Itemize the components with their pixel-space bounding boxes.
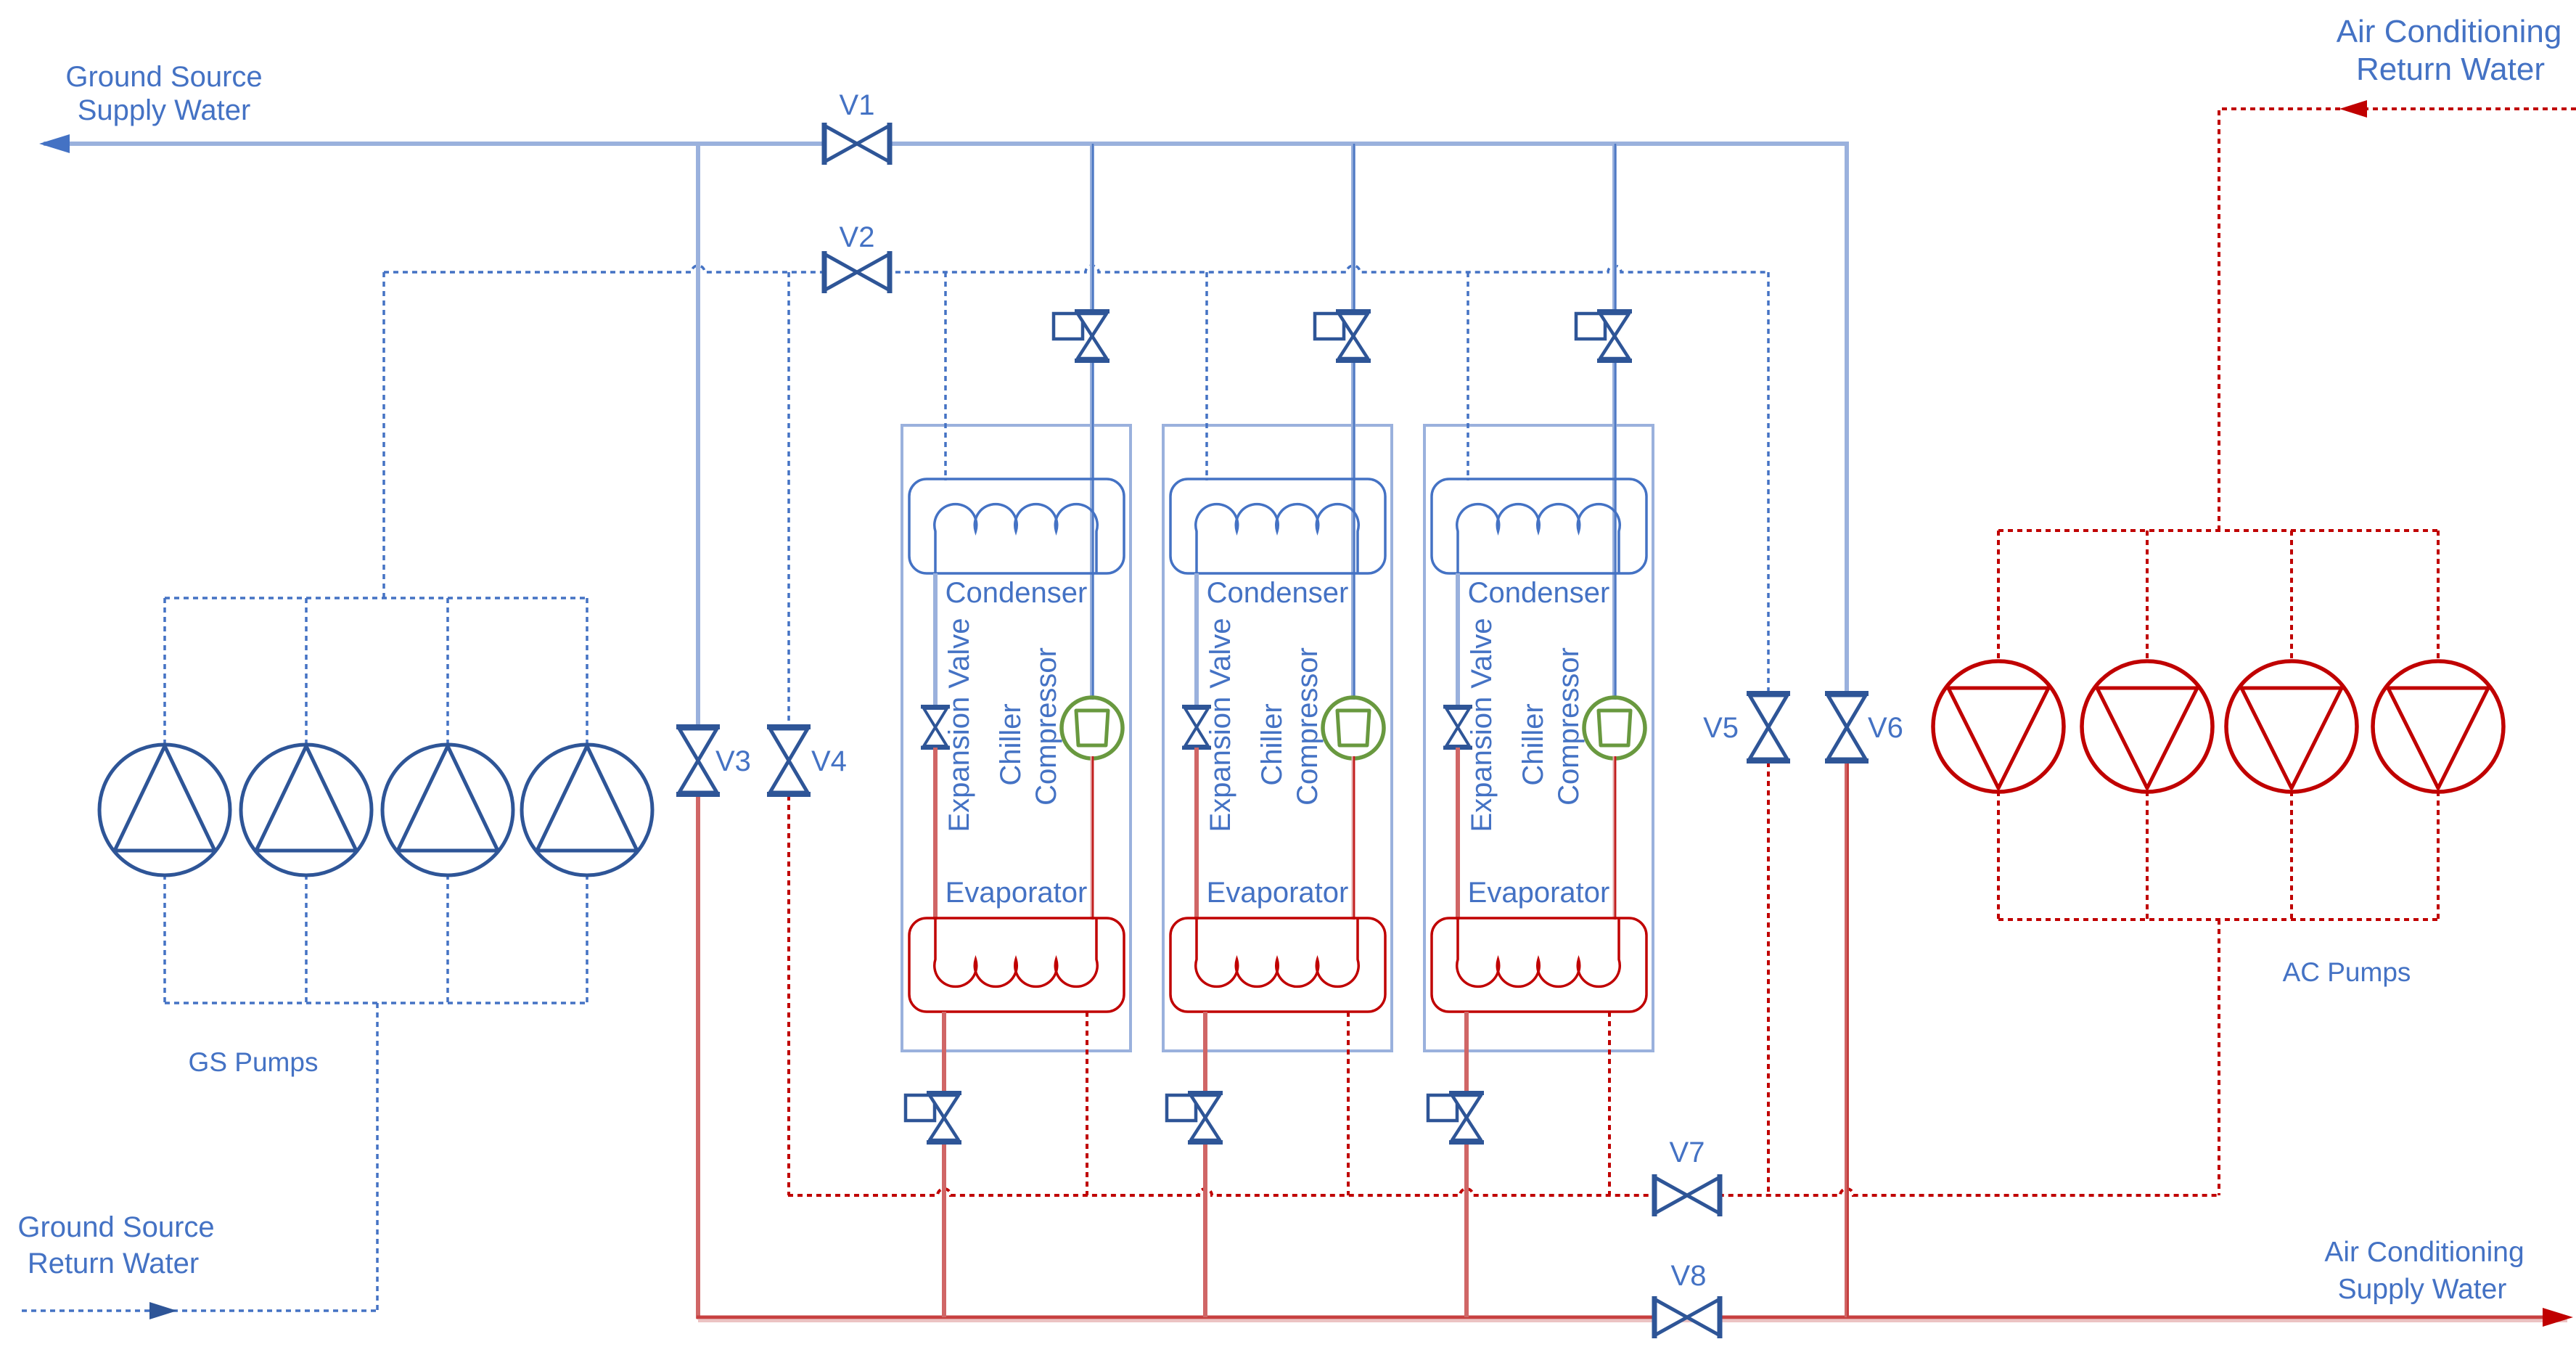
wire: chiller 2 condenser supply riser (solid blue)	[1351, 144, 1355, 700]
wire: V5 drop to V7 header (dashed red)	[1767, 762, 1770, 1195]
arrow: ground source return flow (right)	[149, 1302, 177, 1319]
expansion valve chiller 3	[1443, 705, 1472, 750]
wire: AC pump 3 discharge stub (dashed red)	[2290, 791, 2293, 920]
pump AC4 (air conditioning pump)	[2373, 661, 2503, 792]
chiller 3 enclosure	[1424, 425, 1653, 1051]
wire: air conditioning return water (dashed red)	[2219, 109, 2576, 531]
wire: V7 bypass header (dashed red) with line hops	[788, 1189, 2219, 1195]
wire: air conditioning supply water shadow line	[698, 1319, 2567, 1322]
wire: AC pump 4 discharge stub (dashed red)	[2437, 791, 2440, 920]
svg-text:Ground Source: Ground Source	[65, 61, 262, 93]
arrow: air conditioning return flow (left)	[2339, 100, 2367, 118]
wire: ground source supply water header (solid blue)	[44, 144, 1847, 691]
condenser coil chiller 1	[935, 504, 1098, 573]
svg-text:V2: V2	[840, 221, 875, 253]
svg-text:Return Water: Return Water	[2356, 52, 2545, 87]
wire: chiller 1 compressor discharge core	[1092, 756, 1094, 920]
wire: AC pump 1 suction stub (dashed red)	[1997, 531, 2000, 662]
valve V5	[1747, 691, 1790, 764]
svg-text:Condenser: Condenser	[1468, 577, 1610, 609]
pump AC1 (air conditioning pump)	[1933, 661, 2064, 792]
wire: V6 drop core line	[1847, 762, 1849, 1317]
evaporator shell chiller 3	[1432, 918, 1646, 1012]
condenser shell chiller 1	[909, 479, 1124, 573]
wire: V2 bypass header (dashed blue) with line hops	[384, 266, 1768, 272]
wire: chiller 2 evaporator supply outlet (solid red)	[1203, 1012, 1207, 1317]
svg-text:V4: V4	[811, 745, 847, 777]
wire: AC pump manifold top (dashed red)	[1998, 529, 2438, 532]
wire: chiller 3 expansion valve outlet to evaporator (red)	[1456, 748, 1460, 920]
pump AC3 (air conditioning pump)	[2226, 661, 2357, 792]
motor valve chiller 3 condenser inlet	[1576, 309, 1632, 363]
condenser coil chiller 2	[1196, 504, 1358, 573]
svg-text:Chiller: Chiller	[1256, 703, 1288, 785]
wire: AC pump 3 suction stub (dashed red)	[2290, 531, 2293, 662]
motor valve chiller 1 condenser inlet	[1054, 309, 1109, 363]
svg-text:V7: V7	[1670, 1137, 1705, 1168]
wire: riser from V2 header down to GS pump manifold (dashed blue)	[382, 272, 385, 598]
arrow: air conditioning supply flow (right)	[2543, 1308, 2573, 1327]
svg-text:Chiller: Chiller	[995, 703, 1027, 785]
svg-text:V8: V8	[1671, 1260, 1707, 1292]
chiller 2 enclosure	[1163, 425, 1392, 1051]
svg-text:Air Conditioning: Air Conditioning	[2324, 1237, 2524, 1268]
expansion valve chiller 2	[1182, 705, 1211, 750]
valve V4	[767, 724, 811, 797]
svg-text:Ground Source: Ground Source	[17, 1211, 214, 1243]
wire: V5 riser from V2 header (dashed blue)	[1767, 272, 1770, 692]
wire: chiller 1 compressor discharge to evaporator (red)	[1091, 756, 1094, 920]
svg-text:Chiller: Chiller	[1517, 703, 1549, 785]
svg-text:Air Conditioning: Air Conditioning	[2337, 14, 2562, 49]
evaporator coil chiller 2	[1196, 918, 1358, 986]
wire: AC pump 1 discharge stub (dashed red)	[1997, 791, 2000, 920]
wire: chiller 2 compressor discharge core	[1353, 756, 1355, 920]
svg-text:AC Pumps: AC Pumps	[2283, 957, 2411, 987]
compressor chiller 2 (green)	[1323, 697, 1384, 758]
svg-text:V3: V3	[715, 745, 751, 777]
wire: chiller 3 compressor discharge core	[1615, 756, 1617, 920]
evaporator coil chiller 1	[935, 918, 1098, 986]
wire: GS pump 4 suction stub (dashed blue)	[586, 598, 588, 745]
wire: chiller 2 riser core line	[1353, 144, 1355, 700]
wire: chiller 3 compressor discharge to evaporator (red)	[1613, 756, 1617, 920]
svg-text:GS Pumps: GS Pumps	[189, 1047, 319, 1077]
pump GS2 (ground source pump)	[241, 745, 372, 875]
svg-text:Supply Water: Supply Water	[78, 94, 251, 126]
valve V6	[1825, 691, 1869, 764]
svg-text:Expansion Valve: Expansion Valve	[1205, 618, 1236, 832]
svg-text:Compressor: Compressor	[1292, 647, 1324, 806]
compressor chiller 3 (green)	[1584, 697, 1645, 758]
svg-text:Evaporator: Evaporator	[946, 877, 1088, 909]
evaporator coil chiller 3	[1457, 918, 1620, 986]
evaporator shell chiller 1	[909, 918, 1124, 1012]
wire: chiller 1 expansion valve outlet to evaporator (red)	[933, 748, 938, 920]
svg-text:Condenser: Condenser	[1207, 577, 1349, 609]
valve V1 (gate valve on GS supply header)	[822, 123, 893, 165]
wire: chiller 3 riser core line	[1615, 144, 1617, 700]
wire: AC pump 4 suction stub (dashed red)	[2437, 531, 2440, 662]
wire: chiller 2 condenser bypass inlet (dashed blue)	[1205, 272, 1208, 480]
svg-text:Return Water: Return Water	[28, 1248, 199, 1280]
pump GS1 (ground source pump)	[99, 745, 230, 875]
wire: V4 riser from V2 header (dashed blue)	[787, 272, 790, 726]
pump AC2 (air conditioning pump)	[2082, 661, 2212, 792]
wire: air conditioning supply water header (solid red)	[696, 797, 700, 1319]
wire: chiller 1 evaporator supply outlet (solid red)	[942, 1012, 946, 1317]
motor valve chiller 3 evaporator outlet	[1428, 1091, 1484, 1145]
wire: AC pump manifold drop to V7 header (dashed red)	[2218, 920, 2220, 1195]
wire: ground source return water (dashed blue)	[22, 1308, 377, 1311]
pump GS4 (ground source pump)	[522, 745, 652, 875]
svg-text:Expansion Valve: Expansion Valve	[943, 618, 975, 832]
wire: AC pump 2 discharge stub (dashed red)	[2146, 791, 2149, 920]
valve V3	[676, 724, 720, 797]
condenser shell chiller 2	[1170, 479, 1385, 573]
svg-text:Compressor: Compressor	[1553, 647, 1585, 806]
svg-text:Expansion Valve: Expansion Valve	[1466, 618, 1498, 832]
wire: chiller 3 liquid line to expansion valve (blue)	[1456, 573, 1460, 707]
pump GS3 (ground source pump)	[382, 745, 513, 875]
wire: GS pump manifold top (dashed blue)	[165, 597, 587, 599]
wire: AC pump manifold bottom (dashed red)	[1998, 918, 2438, 921]
compressor chiller 1 (green)	[1062, 697, 1123, 758]
wire: chiller 2 expansion valve outlet to evaporator (red)	[1194, 748, 1199, 920]
wire: AC supply header horizontal run	[697, 1316, 2567, 1319]
valve V7 (on dashed red bypass)	[1652, 1174, 1723, 1216]
wire: chiller 1 liquid line to expansion valve (blue)	[933, 573, 938, 707]
wire: GS pump 1 discharge stub (dashed blue)	[163, 875, 166, 1003]
wire: GS pump 2 discharge stub (dashed blue)	[305, 875, 308, 1003]
wire: V3 riser from GS supply header (solid blue)	[696, 144, 700, 726]
wire: GS pump 1 suction stub (dashed blue)	[163, 598, 166, 745]
arrow: ground source supply flow (left)	[39, 134, 70, 153]
svg-text:V5: V5	[1703, 712, 1739, 744]
wire: GS pump manifold bottom (dashed blue)	[165, 1002, 587, 1004]
svg-text:Evaporator: Evaporator	[1468, 877, 1610, 909]
svg-text:Supply Water: Supply Water	[2338, 1274, 2507, 1305]
valve V2 (gate valve on bypass header)	[822, 251, 893, 293]
svg-text:Evaporator: Evaporator	[1207, 877, 1349, 909]
wire: GS pump manifold drop to return line (dashed blue)	[376, 1003, 379, 1311]
wire: GS pump 2 suction stub (dashed blue)	[305, 598, 308, 745]
motor valve chiller 2 condenser inlet	[1315, 309, 1371, 363]
wire: V4 drop to V7 header (dashed red)	[787, 795, 790, 1195]
wire: GS pump 3 discharge stub (dashed blue)	[446, 875, 449, 1003]
wire: chiller 1 condenser supply riser (solid blue)	[1090, 144, 1094, 700]
wire: chiller 1 riser core line	[1092, 144, 1094, 700]
chiller 1 enclosure	[902, 425, 1131, 1051]
wire: chiller 3 condenser supply riser (solid blue)	[1612, 144, 1617, 700]
evaporator shell chiller 2	[1170, 918, 1385, 1012]
motor valve chiller 1 evaporator outlet	[906, 1091, 961, 1145]
condenser shell chiller 3	[1432, 479, 1646, 573]
wire: chiller 2 liquid line to expansion valve (blue)	[1194, 573, 1199, 707]
motor valve chiller 2 evaporator outlet	[1167, 1091, 1223, 1145]
wire: chiller 1 condenser bypass inlet (dashed blue)	[944, 272, 947, 480]
svg-text:Compressor: Compressor	[1030, 647, 1062, 806]
wire: chiller 3 evaporator bypass outlet (dashed red)	[1608, 1012, 1611, 1195]
condenser coil chiller 3	[1457, 504, 1620, 573]
wire: AC pump 2 suction stub (dashed red)	[2146, 531, 2149, 662]
svg-text:V1: V1	[840, 89, 875, 121]
wire: chiller 2 compressor discharge to evaporator (red)	[1352, 756, 1355, 920]
wire: V6 drop to AC supply header (solid red)	[1845, 762, 1849, 1317]
wire: GS pump 3 suction stub (dashed blue)	[446, 598, 449, 745]
svg-text:V6: V6	[1868, 712, 1903, 744]
wire: GS pump 4 discharge stub (dashed blue)	[586, 875, 588, 1003]
wire: chiller 1 evaporator bypass outlet (dashed red)	[1086, 1012, 1088, 1195]
wire: chiller 3 condenser bypass inlet (dashed blue)	[1467, 272, 1469, 480]
valve V8 (on AC supply header)	[1652, 1296, 1723, 1338]
wire: chiller 3 evaporator supply outlet (solid red)	[1464, 1012, 1469, 1317]
expansion valve chiller 1	[921, 705, 950, 750]
wire: chiller 2 evaporator bypass outlet (dashed red)	[1347, 1012, 1350, 1195]
svg-text:Condenser: Condenser	[946, 577, 1088, 609]
